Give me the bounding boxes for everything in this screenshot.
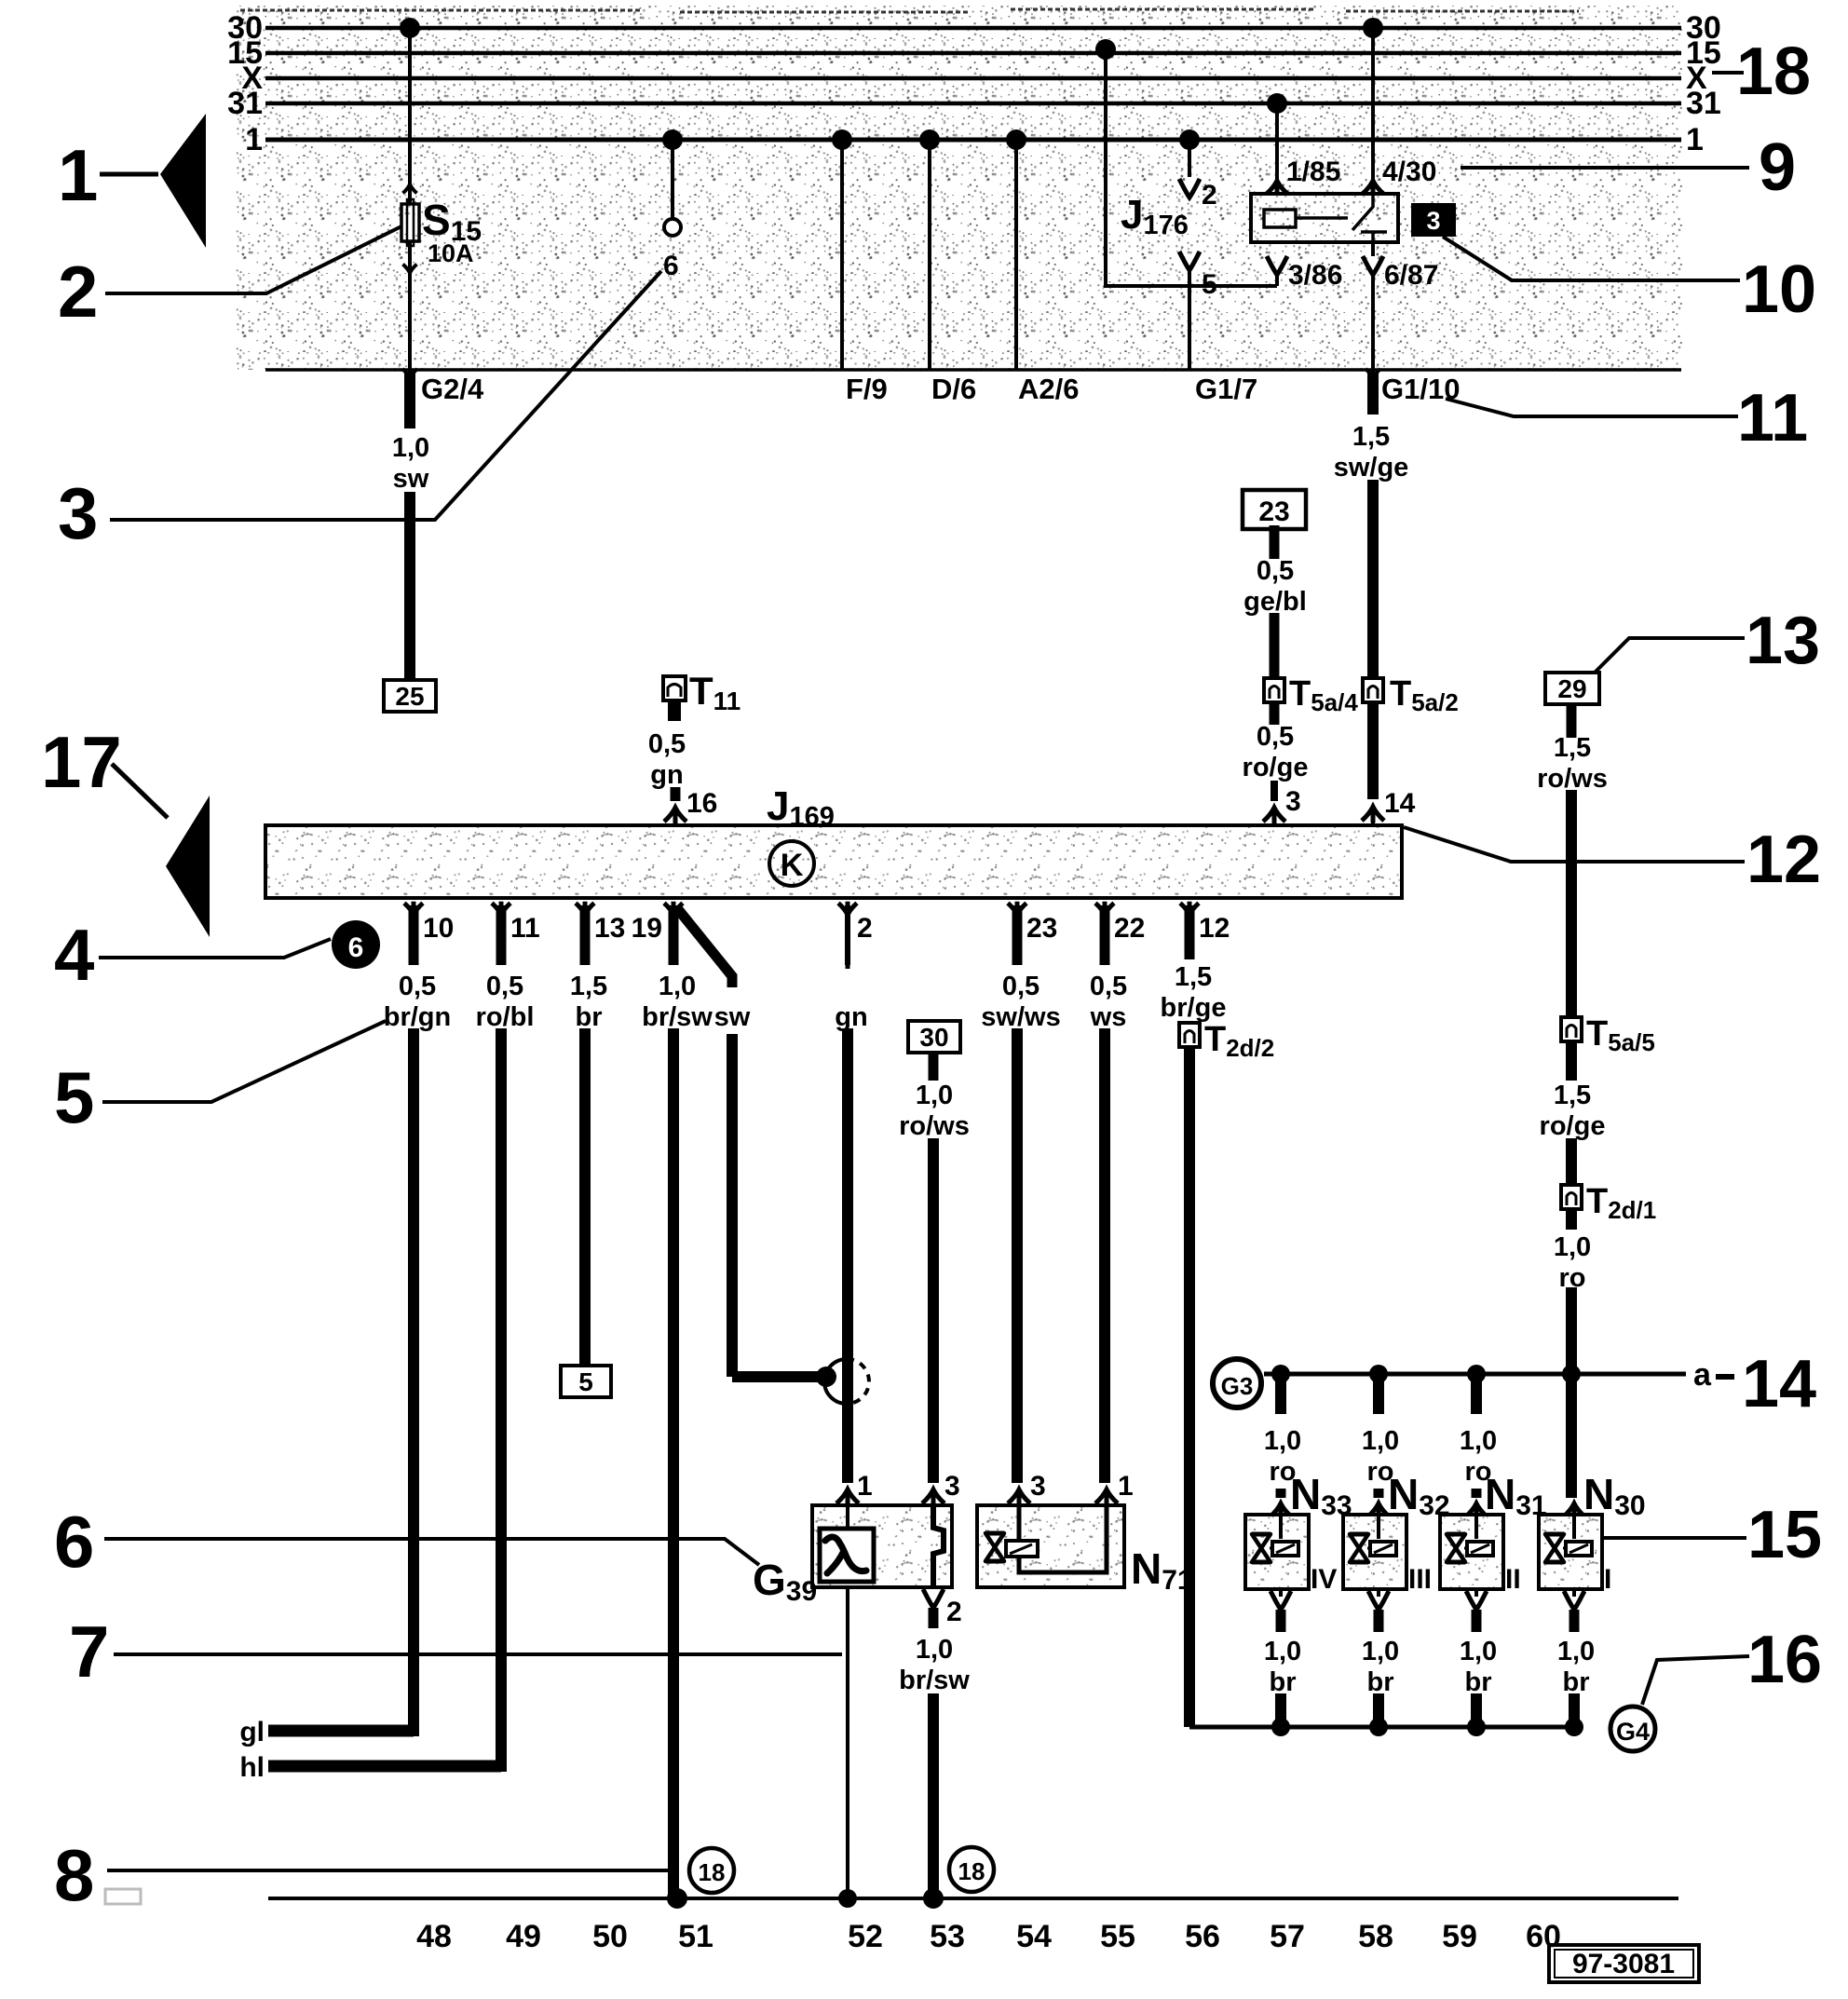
svg-text:48: 48: [416, 1919, 452, 1954]
sw/ws wire down to N71 pin 3: [1012, 1028, 1023, 1483]
shaded supply band: [236, 6, 1683, 370]
junction on bus 30 (fuse feed): [400, 18, 420, 38]
svg-text:53: 53: [930, 1919, 965, 1954]
injector N32: [1368, 1503, 1389, 1518]
svg-text:3: 3: [944, 1471, 960, 1502]
svg-text:1: 1: [1118, 1471, 1134, 1502]
svg-text:30: 30: [919, 1023, 948, 1052]
svg-text:9: 9: [1759, 130, 1796, 205]
J169 pin 13 below bar: [576, 902, 594, 915]
junction track 51: [667, 1888, 687, 1909]
svg-text:52: 52: [848, 1919, 883, 1954]
arrow into pin 14: [1362, 807, 1384, 823]
wire into injector at 1585: [1472, 1489, 1482, 1498]
wire bus1 to J176 pin 2: [1188, 140, 1191, 177]
svg-text:A2/6: A2/6: [1018, 373, 1079, 405]
svg-text:G2/4: G2/4: [421, 373, 484, 405]
stub below rail at 1585: [1471, 1374, 1482, 1414]
svg-text:1,0: 1,0: [1362, 1426, 1399, 1456]
stub below box 29: [1567, 704, 1577, 738]
svg-text:II: II: [1505, 1564, 1521, 1595]
fork terminal 5 of J176: [1179, 252, 1200, 270]
callout 1 triangle: [160, 114, 206, 248]
wire ro down to N30: [1566, 1287, 1577, 1498]
callout 4 line: [99, 939, 331, 958]
svg-text:D/6: D/6: [931, 373, 976, 405]
arrow into G39 pin3: [922, 1489, 944, 1505]
svg-text:1/85: 1/85: [1286, 156, 1340, 187]
svg-text:97-3081: 97-3081: [1572, 1949, 1675, 1979]
wire bus30 to fuse S15: [408, 28, 412, 204]
wire down to terminal 25: [404, 492, 415, 680]
svg-text:1,0: 1,0: [916, 1081, 953, 1110]
control unit J169 bar: [265, 825, 1402, 898]
svg-text:4: 4: [54, 914, 94, 996]
connector T5a/5: [1561, 1017, 1582, 1041]
svg-text:58: 58: [1358, 1919, 1393, 1954]
svg-text:11: 11: [510, 913, 540, 944]
svg-text:G4: G4: [1616, 1718, 1650, 1746]
svg-text:1: 1: [58, 134, 98, 216]
arrow into G39 pin1: [836, 1489, 859, 1505]
lambda connector circle (dashed): [824, 1359, 847, 1404]
callout 12 line: [1404, 827, 1745, 862]
svg-text:0,5: 0,5: [399, 972, 436, 1001]
svg-text:gl: gl: [239, 1717, 265, 1747]
svg-text:1,0: 1,0: [392, 433, 429, 463]
junction track 53: [923, 1888, 944, 1909]
J169 pin 10 below bar: [404, 902, 423, 915]
relay coil: [1264, 210, 1296, 227]
wire br/sw down to track 53: [928, 1693, 939, 1898]
bus bar 30: [265, 26, 1681, 31]
bus bar 31: [265, 102, 1681, 106]
junction on bus 1 at x=722: [662, 129, 683, 150]
bus bar 1: [265, 138, 1681, 143]
wire bus1 to F/9: [840, 140, 844, 370]
svg-text:ro/bl: ro/bl: [476, 1002, 535, 1032]
svg-text:31: 31: [227, 86, 263, 121]
svg-text:1,0: 1,0: [1554, 1232, 1591, 1262]
arrow into N71 pin1: [1095, 1489, 1118, 1505]
injector N31: [1466, 1503, 1487, 1518]
svg-text:1,0: 1,0: [1264, 1426, 1301, 1456]
joint dot on rail at 1480: [1369, 1365, 1388, 1383]
svg-text:br: br: [1465, 1667, 1492, 1697]
svg-text:6/87: 6/87: [1384, 260, 1438, 291]
junction on bus 31 (1/85 feed): [1267, 93, 1287, 114]
K symbol circle: [769, 841, 814, 886]
injector N33: [1270, 1503, 1291, 1518]
svg-text:ro/ws: ro/ws: [1537, 764, 1608, 794]
svg-text:2: 2: [946, 1597, 962, 1627]
junction on bus 1 at x=1277: [1179, 129, 1200, 150]
svg-text:ro/ws: ro/ws: [899, 1111, 970, 1141]
svg-text:F/9: F/9: [846, 373, 888, 405]
svg-text:55: 55: [1100, 1919, 1135, 1954]
callout 8 line: [107, 1869, 677, 1872]
svg-text:10A: 10A: [428, 239, 474, 267]
dash before 14: [1716, 1374, 1734, 1380]
stub pin 2: [929, 1608, 939, 1628]
svg-text:0,5: 0,5: [1002, 972, 1039, 1001]
svg-text:14: 14: [1384, 788, 1416, 819]
svg-text:sw/ws: sw/ws: [981, 1002, 1060, 1032]
terminal box 29: [1545, 673, 1599, 704]
sw wire down: [727, 1034, 738, 1377]
J169 pin 23 below bar: [1008, 902, 1026, 915]
svg-text:0,5: 0,5: [1090, 972, 1127, 1001]
callout 2 line to fuse: [105, 226, 401, 293]
wire br/ge down to injector ground rail: [1184, 1047, 1195, 1727]
connector T5a/2: [1363, 678, 1383, 702]
terminal box 25: [384, 680, 436, 712]
svg-text:sw: sw: [714, 1002, 751, 1032]
junction track 52: [838, 1889, 857, 1908]
svg-text:16: 16: [686, 788, 717, 819]
svg-text:br: br: [576, 1002, 603, 1032]
idle stabiliser valve N71 box: [977, 1505, 1124, 1587]
svg-text:8: 8: [54, 1834, 94, 1916]
wire into injector at 1375: [1276, 1489, 1286, 1498]
callout 17 pointer: [112, 764, 168, 818]
wire into injector at 1480: [1374, 1489, 1384, 1498]
direction arrow above fuse: [403, 184, 417, 195]
J169 pin 2 below bar: [838, 902, 857, 915]
svg-text:12: 12: [1199, 913, 1230, 944]
svg-text:25: 25: [395, 682, 424, 711]
callout 13 line: [1595, 638, 1745, 673]
terminal box 30: [908, 1021, 960, 1053]
svg-text:ro/ge: ro/ge: [1243, 753, 1309, 782]
svg-text:3: 3: [1030, 1471, 1046, 1502]
svg-text:19: 19: [632, 913, 662, 944]
svg-text:51: 51: [678, 1919, 713, 1954]
svg-text:3: 3: [1285, 786, 1301, 817]
svg-text:br: br: [1367, 1667, 1394, 1697]
fork below G39 pin 2: [923, 1589, 944, 1608]
wire to pin 14: [1367, 700, 1379, 799]
svg-text:18: 18: [699, 1858, 726, 1886]
injector ground rail: [1189, 1725, 1574, 1730]
svg-text:5: 5: [578, 1367, 593, 1396]
svg-text:54: 54: [1016, 1919, 1052, 1954]
joint dot rail/N30 wire: [1562, 1365, 1581, 1383]
junction on bus 1 at x=1091: [1006, 129, 1026, 150]
svg-text:23: 23: [1026, 913, 1057, 944]
svg-text:0,5: 0,5: [648, 729, 686, 759]
svg-text:G1/10: G1/10: [1381, 373, 1460, 405]
callout 11 line: [1446, 399, 1738, 416]
fork 3/86: [1267, 256, 1287, 275]
svg-text:49: 49: [506, 1919, 541, 1954]
svg-text:br: br: [1270, 1667, 1297, 1697]
svg-text:5: 5: [54, 1056, 94, 1138]
wire switch to 6/87: [1371, 242, 1375, 256]
svg-text:18: 18: [958, 1857, 985, 1885]
svg-text:1,5: 1,5: [570, 972, 607, 1001]
svg-text:3: 3: [58, 472, 98, 554]
fork below G1/10: [1366, 368, 1380, 378]
callout 18 line: [1712, 71, 1744, 75]
scan edge speckle at top: [240, 9, 1579, 12]
drawing number box 97-3081: [1549, 1945, 1699, 1982]
wire br down to terminal 5 box: [579, 1028, 591, 1366]
stub below box 23: [1270, 525, 1280, 559]
svg-text:1,5: 1,5: [1352, 422, 1390, 452]
svg-text:sw/ge: sw/ge: [1334, 453, 1409, 483]
svg-text:6: 6: [54, 1501, 94, 1583]
svg-text:0,5: 0,5: [1257, 722, 1294, 752]
svg-text:1,5: 1,5: [1554, 1081, 1591, 1110]
wire stub G2/4: [404, 373, 415, 428]
stub below G1/10: [1367, 373, 1379, 415]
svg-text:K: K: [781, 848, 804, 883]
wire ro/ge: [1566, 1138, 1577, 1188]
fuse S15 10A: [401, 204, 419, 241]
svg-text:I: I: [1604, 1564, 1611, 1595]
connector T2d/1: [1561, 1185, 1582, 1209]
svg-text:a: a: [1693, 1357, 1712, 1393]
terminal box 5: [561, 1366, 611, 1397]
terminal box 23: [1243, 490, 1306, 529]
svg-text:15: 15: [1747, 1498, 1822, 1572]
joint dot on rail at 1375: [1271, 1365, 1290, 1383]
wire bus31 to 1/85: [1275, 103, 1279, 194]
ground point G4: [1610, 1707, 1655, 1751]
J169 pin 12 below bar: [1180, 902, 1199, 915]
oxygen sensor G39 box: [812, 1505, 952, 1587]
joint dot on rail at 1585: [1467, 1365, 1486, 1383]
N71 internal wiring: [1019, 1505, 1107, 1572]
circled 18 right: [949, 1847, 994, 1892]
junction on bus 15 (J176 feed): [1095, 39, 1116, 60]
svg-text:13: 13: [594, 913, 625, 944]
svg-text:10: 10: [423, 913, 454, 944]
callout 6 line: [104, 1539, 759, 1565]
svg-text:23: 23: [1258, 496, 1289, 527]
wire ro/ws down to G39 pin 3: [928, 1138, 939, 1483]
fork 6/87: [1363, 256, 1383, 275]
J169 pin 19 below bar: [664, 902, 683, 915]
svg-text:11: 11: [1737, 381, 1808, 456]
current track rail: [268, 1897, 1678, 1900]
injector N30: [1564, 1503, 1584, 1518]
connector strip boundary: [265, 368, 1681, 372]
wire br/gn down to gl: [408, 1028, 419, 1736]
relay switch contact: [1352, 194, 1387, 242]
J169 pin 11 below bar: [492, 902, 510, 915]
valve symbol in N71: [985, 1533, 1004, 1561]
wire bus1 to D/6: [928, 140, 931, 370]
svg-text:1,0: 1,0: [659, 972, 696, 1001]
svg-text:1,0: 1,0: [916, 1635, 953, 1665]
svg-text:17: 17: [41, 721, 122, 803]
svg-text:1,5: 1,5: [1175, 962, 1212, 992]
hl wire: [268, 1761, 501, 1773]
arrow at 4/30: [1363, 181, 1383, 196]
wire fuse to G2/4: [408, 241, 412, 370]
fork terminal 2 of J176: [1179, 179, 1200, 197]
bus bar 15: [265, 51, 1681, 56]
svg-text:56: 56: [1185, 1919, 1220, 1954]
bus bar X: [265, 76, 1681, 81]
bullet at shield joint: [816, 1367, 836, 1387]
stub below rail at 1375: [1275, 1374, 1286, 1414]
J176 feed wire from bus 15: [1106, 49, 1277, 286]
stub below rail at 1480: [1373, 1374, 1384, 1414]
wire ge/bl: [1270, 613, 1280, 689]
junction on bus 30 (4/30 feed): [1363, 18, 1383, 38]
svg-text:br/ge: br/ge: [1161, 993, 1227, 1023]
svg-text:br/sw: br/sw: [899, 1666, 970, 1695]
wire 6/87 to G1/10: [1371, 275, 1375, 370]
callout 5 line: [102, 1021, 386, 1102]
open terminal circle 6: [664, 219, 681, 236]
lambda symbol box: [820, 1529, 874, 1582]
connector T2d/2: [1179, 1023, 1200, 1047]
callout 3 line to terminal 6: [110, 271, 661, 520]
svg-text:1: 1: [245, 122, 263, 157]
svg-text:1,0: 1,0: [1460, 1637, 1497, 1666]
callout 16 line: [1642, 1656, 1749, 1705]
sw wire to shield joint: [732, 1371, 823, 1382]
svg-text:16: 16: [1747, 1623, 1822, 1697]
svg-text:50: 50: [592, 1919, 628, 1954]
wire ro/ws down: [1566, 790, 1577, 1020]
svg-text:5: 5: [1202, 269, 1217, 300]
arrow into N71 pin3: [1008, 1489, 1030, 1505]
svg-text:G1/7: G1/7: [1195, 373, 1257, 405]
wire sw/ge down: [1367, 480, 1379, 689]
svg-text:3: 3: [1426, 207, 1440, 235]
callout 10 line: [1443, 237, 1740, 280]
callout 15 line: [1602, 1536, 1746, 1540]
sw branch diagonal: [677, 908, 732, 987]
callout 1 line: [100, 172, 158, 177]
svg-text:0,5: 0,5: [1257, 556, 1294, 586]
gn wire down to G39 pin 1: [842, 1028, 853, 1483]
gl wire: [268, 1725, 414, 1737]
welded joint G3 symbol: [1213, 1359, 1261, 1407]
svg-text:1,0: 1,0: [1264, 1637, 1301, 1666]
connector T11 symbol: [663, 676, 686, 700]
svg-text:br: br: [1563, 1667, 1590, 1697]
svg-text:IV: IV: [1311, 1564, 1337, 1595]
junction on bus 1 at x=998: [919, 129, 940, 150]
J169 pin 22 below bar: [1095, 902, 1114, 915]
wire ro/bl down to hl: [496, 1028, 507, 1772]
black box 3 tag: [1411, 203, 1456, 237]
svg-text:31: 31: [1686, 86, 1721, 121]
svg-text:1: 1: [1686, 122, 1704, 157]
svg-text:1,0: 1,0: [1557, 1637, 1595, 1666]
svg-text:br/gn: br/gn: [384, 1002, 452, 1032]
arrow into pin16: [664, 808, 686, 823]
relay J176 box: [1251, 194, 1398, 242]
svg-text:2: 2: [1202, 180, 1217, 211]
wire bus30 to 4/30: [1371, 28, 1375, 194]
svg-text:1: 1: [857, 1471, 873, 1502]
svg-text:6: 6: [348, 932, 364, 963]
faint artifact box: [105, 1889, 141, 1904]
direction arrow below fuse: [403, 263, 417, 273]
svg-text:sw: sw: [393, 464, 429, 494]
connector T5a/4: [1264, 678, 1284, 702]
svg-text:gn: gn: [650, 760, 683, 790]
svg-text:14: 14: [1742, 1347, 1816, 1421]
heater element jog in G39: [933, 1505, 944, 1587]
svg-text:G3: G3: [1221, 1372, 1254, 1400]
callout 7 line: [114, 1652, 842, 1656]
svg-text:6: 6: [663, 251, 679, 281]
svg-text:12: 12: [1746, 823, 1821, 897]
wire terminal5 to G1/7: [1188, 270, 1191, 370]
svg-text:13: 13: [1746, 604, 1820, 678]
wire br/sw down to track 51: [668, 1028, 679, 1898]
wire bus1 to terminal 6: [671, 140, 674, 220]
svg-text:10: 10: [1742, 252, 1816, 327]
black disc 6: [332, 920, 380, 969]
svg-text:1,5: 1,5: [1554, 733, 1591, 763]
svg-text:ge/bl: ge/bl: [1243, 587, 1307, 617]
arrow into pin 3: [1263, 808, 1285, 823]
wire bus1 to A2/6: [1014, 140, 1018, 370]
callout 9 line: [1461, 166, 1749, 170]
svg-text:III: III: [1408, 1564, 1432, 1595]
manifold line a: [1264, 1372, 1686, 1377]
svg-text:1,0: 1,0: [1460, 1426, 1497, 1456]
wire stub into pin 16: [671, 787, 681, 801]
circled 18 left: [689, 1848, 734, 1893]
svg-text:br/sw: br/sw: [642, 1002, 713, 1032]
thin sensor ground wire to track 52: [846, 1587, 849, 1898]
svg-text:22: 22: [1114, 913, 1145, 944]
svg-text:0,5: 0,5: [486, 972, 523, 1001]
svg-text:1,0: 1,0: [1362, 1637, 1399, 1666]
junction on bus 1 at x=904: [832, 129, 852, 150]
svg-text:ro/ge: ro/ge: [1540, 1111, 1606, 1141]
svg-text:29: 29: [1557, 674, 1586, 703]
svg-text:2: 2: [857, 913, 873, 944]
callout 17 triangle: [166, 796, 210, 937]
ws wire down to N71 pin 1: [1099, 1028, 1110, 1483]
svg-text:gn: gn: [835, 1002, 867, 1032]
arrow at 1/85: [1267, 181, 1287, 196]
gn wire thin segment: [846, 941, 850, 969]
svg-text:7: 7: [69, 1611, 109, 1693]
svg-text:18: 18: [1736, 34, 1811, 109]
svg-text:hl: hl: [239, 1752, 265, 1783]
stub below box 30: [929, 1053, 939, 1081]
wire to pin 3: [1270, 781, 1278, 801]
svg-text:2: 2: [58, 251, 98, 333]
svg-text:4/30: 4/30: [1382, 156, 1436, 187]
svg-text:ws: ws: [1090, 1002, 1127, 1032]
tiny fork below G2/4: [402, 368, 417, 378]
svg-text:57: 57: [1270, 1919, 1305, 1954]
svg-text:3/86: 3/86: [1288, 260, 1342, 291]
svg-text:59: 59: [1442, 1919, 1477, 1954]
